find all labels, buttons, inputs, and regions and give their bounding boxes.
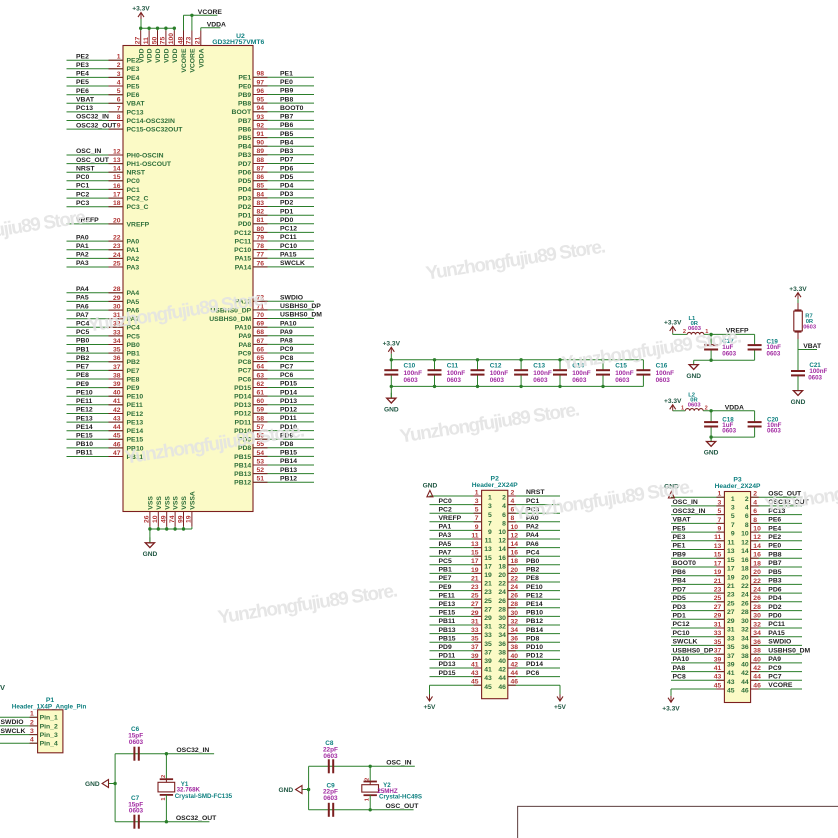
svg-text:PB2: PB2 bbox=[526, 567, 539, 574]
svg-text:PB12: PB12 bbox=[280, 476, 297, 483]
svg-text:PC11: PC11 bbox=[235, 238, 252, 245]
svg-text:+3.3V: +3.3V bbox=[789, 286, 807, 293]
svg-text:0603: 0603 bbox=[447, 377, 462, 384]
svg-text:PD2: PD2 bbox=[238, 204, 251, 211]
svg-text:PB5: PB5 bbox=[238, 135, 251, 142]
svg-text:43: 43 bbox=[727, 679, 735, 686]
svg-text:VBAT: VBAT bbox=[673, 517, 692, 524]
svg-text:100nF: 100nF bbox=[615, 370, 634, 377]
svg-text:PE12: PE12 bbox=[526, 592, 543, 599]
svg-text:11: 11 bbox=[471, 532, 478, 539]
svg-text:Yunzhongfujiu89 Store.: Yunzhongfujiu89 Store. bbox=[398, 400, 580, 448]
svg-text:44: 44 bbox=[741, 679, 749, 686]
svg-text:PB12: PB12 bbox=[526, 618, 543, 625]
svg-text:9: 9 bbox=[117, 123, 121, 130]
svg-text:91: 91 bbox=[257, 131, 265, 138]
svg-text:24: 24 bbox=[753, 587, 761, 594]
svg-text:15: 15 bbox=[471, 550, 479, 557]
svg-text:1: 1 bbox=[718, 491, 722, 498]
svg-text:SWCLK: SWCLK bbox=[673, 639, 698, 646]
svg-text:16: 16 bbox=[113, 183, 121, 190]
svg-text:VSS: VSS bbox=[164, 496, 171, 510]
svg-text:VREFP: VREFP bbox=[127, 221, 150, 228]
svg-text:33: 33 bbox=[714, 630, 722, 637]
svg-text:Header_2X24P: Header_2X24P bbox=[472, 482, 518, 489]
svg-text:PD5: PD5 bbox=[238, 178, 251, 185]
svg-text:40: 40 bbox=[753, 656, 761, 663]
svg-text:21: 21 bbox=[471, 575, 479, 582]
svg-text:USBHS0_DM: USBHS0_DM bbox=[768, 647, 810, 654]
svg-text:30: 30 bbox=[753, 613, 761, 620]
svg-text:C12: C12 bbox=[490, 363, 502, 370]
svg-text:100nF: 100nF bbox=[490, 370, 509, 377]
svg-text:7: 7 bbox=[731, 522, 735, 529]
svg-text:VSS: VSS bbox=[156, 496, 163, 510]
svg-text:PE2: PE2 bbox=[768, 534, 781, 541]
svg-text:43: 43 bbox=[714, 674, 722, 681]
svg-text:49: 49 bbox=[161, 515, 168, 523]
svg-text:PA1: PA1 bbox=[127, 247, 140, 254]
svg-text:17: 17 bbox=[714, 560, 722, 567]
svg-text:SWCLK: SWCLK bbox=[280, 260, 305, 267]
svg-text:PD10: PD10 bbox=[526, 644, 543, 651]
svg-text:VCORE: VCORE bbox=[190, 48, 197, 73]
svg-text:PB1: PB1 bbox=[76, 346, 89, 353]
svg-text:PB11: PB11 bbox=[76, 450, 93, 457]
svg-text:47: 47 bbox=[113, 450, 121, 457]
svg-text:PB7: PB7 bbox=[768, 560, 781, 567]
svg-text:PE1: PE1 bbox=[673, 543, 686, 550]
svg-text:PE7: PE7 bbox=[127, 368, 140, 375]
svg-text:42: 42 bbox=[498, 667, 506, 674]
svg-text:44: 44 bbox=[498, 675, 506, 682]
svg-text:0603: 0603 bbox=[323, 795, 338, 802]
svg-text:PD7: PD7 bbox=[673, 586, 686, 593]
svg-text:PC1: PC1 bbox=[76, 183, 89, 190]
svg-text:PB14: PB14 bbox=[280, 458, 297, 465]
svg-text:25: 25 bbox=[484, 598, 492, 605]
svg-text:8: 8 bbox=[502, 520, 506, 527]
svg-text:25: 25 bbox=[714, 595, 722, 602]
svg-text:25: 25 bbox=[471, 593, 479, 600]
svg-text:42: 42 bbox=[113, 407, 121, 414]
svg-text:SWDIO: SWDIO bbox=[1, 719, 24, 726]
svg-text:PD5: PD5 bbox=[280, 174, 293, 181]
svg-text:39: 39 bbox=[113, 381, 121, 388]
svg-text:0603: 0603 bbox=[129, 808, 144, 815]
svg-text:42: 42 bbox=[511, 661, 519, 668]
svg-text:70: 70 bbox=[257, 312, 265, 319]
svg-text:PD6: PD6 bbox=[280, 165, 293, 172]
svg-text:PA10: PA10 bbox=[280, 320, 297, 327]
svg-text:PA10: PA10 bbox=[673, 656, 690, 663]
svg-text:45: 45 bbox=[484, 684, 492, 691]
svg-text:OSC_IN: OSC_IN bbox=[386, 760, 411, 767]
svg-text:37: 37 bbox=[727, 653, 735, 660]
svg-text:PE4: PE4 bbox=[768, 525, 781, 532]
svg-text:13: 13 bbox=[727, 548, 735, 555]
svg-text:4: 4 bbox=[30, 737, 34, 744]
svg-text:PB15: PB15 bbox=[280, 450, 297, 457]
svg-text:PB10: PB10 bbox=[526, 610, 543, 617]
svg-text:PE9: PE9 bbox=[127, 385, 140, 392]
svg-text:+3.3V: +3.3V bbox=[383, 340, 401, 347]
svg-text:59: 59 bbox=[257, 407, 265, 414]
svg-text:2: 2 bbox=[30, 719, 34, 726]
svg-text:0603: 0603 bbox=[615, 377, 630, 384]
svg-text:VREFP: VREFP bbox=[439, 515, 462, 522]
svg-text:GND: GND bbox=[85, 781, 100, 788]
svg-text:67: 67 bbox=[257, 338, 265, 345]
svg-text:PE8: PE8 bbox=[76, 372, 89, 379]
svg-text:83: 83 bbox=[257, 200, 265, 207]
svg-text:PC8: PC8 bbox=[238, 359, 251, 366]
svg-text:PA14: PA14 bbox=[235, 264, 252, 271]
svg-text:PA4: PA4 bbox=[76, 286, 89, 293]
svg-text:20: 20 bbox=[753, 569, 761, 576]
svg-text:42: 42 bbox=[753, 665, 761, 672]
svg-text:3: 3 bbox=[731, 505, 735, 512]
svg-text:PD15: PD15 bbox=[280, 381, 297, 388]
svg-text:32: 32 bbox=[511, 618, 519, 625]
svg-text:Header_2X24P: Header_2X24P bbox=[715, 483, 761, 490]
svg-text:3: 3 bbox=[30, 728, 34, 735]
svg-text:11: 11 bbox=[143, 37, 150, 44]
svg-text:PE7: PE7 bbox=[439, 575, 452, 582]
svg-text:11: 11 bbox=[714, 534, 721, 541]
svg-text:2: 2 bbox=[511, 489, 515, 496]
svg-text:OSC32_IN: OSC32_IN bbox=[673, 508, 706, 515]
svg-text:PA2: PA2 bbox=[526, 524, 539, 531]
svg-text:PD11: PD11 bbox=[439, 653, 456, 660]
svg-text:27: 27 bbox=[135, 37, 142, 45]
svg-text:PC8: PC8 bbox=[280, 355, 293, 362]
svg-text:13: 13 bbox=[714, 543, 722, 550]
svg-text:PC7: PC7 bbox=[768, 674, 781, 681]
svg-text:15: 15 bbox=[484, 555, 492, 562]
svg-text:PB15: PB15 bbox=[234, 454, 251, 461]
svg-text:36: 36 bbox=[741, 644, 749, 651]
svg-text:0603: 0603 bbox=[722, 351, 736, 358]
svg-text:81: 81 bbox=[257, 217, 265, 224]
svg-text:PC9: PC9 bbox=[768, 665, 781, 672]
svg-text:22: 22 bbox=[511, 575, 519, 582]
svg-text:18: 18 bbox=[753, 560, 761, 567]
svg-text:PA8: PA8 bbox=[238, 342, 251, 349]
svg-text:PA5: PA5 bbox=[127, 299, 140, 306]
svg-text:PC1: PC1 bbox=[127, 187, 140, 194]
svg-text:5: 5 bbox=[117, 88, 121, 95]
svg-text:10: 10 bbox=[498, 529, 506, 536]
svg-text:74: 74 bbox=[169, 515, 176, 523]
svg-text:Yunzhongfujiu89 Store.: Yunzhongfujiu89 Store. bbox=[512, 477, 694, 525]
svg-text:PE4: PE4 bbox=[127, 75, 140, 82]
svg-text:C16: C16 bbox=[656, 363, 668, 370]
svg-text:PB15: PB15 bbox=[439, 635, 456, 642]
svg-text:1: 1 bbox=[161, 797, 167, 800]
svg-text:VBAT: VBAT bbox=[127, 101, 146, 108]
svg-text:+3.3V: +3.3V bbox=[664, 320, 682, 327]
svg-text:PD12: PD12 bbox=[526, 653, 543, 660]
svg-text:19: 19 bbox=[727, 574, 735, 581]
svg-text:PB12: PB12 bbox=[234, 480, 251, 487]
svg-text:+5V: +5V bbox=[424, 704, 437, 711]
svg-text:13: 13 bbox=[113, 157, 121, 164]
svg-text:45: 45 bbox=[714, 682, 722, 689]
svg-text:0603: 0603 bbox=[490, 377, 505, 384]
svg-text:VDD: VDD bbox=[138, 48, 145, 62]
svg-text:20: 20 bbox=[511, 567, 519, 574]
svg-text:1: 1 bbox=[731, 496, 735, 503]
svg-text:34: 34 bbox=[113, 338, 121, 345]
svg-text:54: 54 bbox=[257, 450, 265, 457]
svg-text:46: 46 bbox=[113, 441, 121, 448]
svg-text:PB4: PB4 bbox=[280, 139, 293, 146]
svg-text:15: 15 bbox=[113, 174, 121, 181]
svg-text:23: 23 bbox=[484, 589, 492, 596]
svg-text:39: 39 bbox=[471, 653, 479, 660]
svg-text:100nF: 100nF bbox=[404, 370, 423, 377]
svg-text:35: 35 bbox=[471, 636, 479, 643]
svg-text:53: 53 bbox=[257, 458, 265, 465]
svg-text:+3.3V: +3.3V bbox=[664, 398, 682, 405]
svg-text:PD6: PD6 bbox=[768, 586, 781, 593]
svg-text:PD3: PD3 bbox=[280, 191, 293, 198]
svg-text:16: 16 bbox=[753, 552, 761, 559]
svg-text:PA0: PA0 bbox=[76, 234, 89, 241]
svg-text:PE5: PE5 bbox=[76, 79, 89, 86]
svg-text:PC6: PC6 bbox=[280, 372, 293, 379]
svg-text:OSC32_IN: OSC32_IN bbox=[176, 747, 209, 754]
svg-text:NRST: NRST bbox=[127, 170, 146, 177]
svg-text:PC5: PC5 bbox=[439, 558, 452, 565]
svg-text:OSC_IN: OSC_IN bbox=[673, 499, 698, 506]
svg-text:PC5: PC5 bbox=[76, 329, 89, 336]
svg-text:PB7: PB7 bbox=[238, 118, 251, 125]
svg-text:45: 45 bbox=[113, 433, 121, 440]
svg-text:PC10: PC10 bbox=[673, 630, 690, 637]
svg-text:PC12: PC12 bbox=[234, 230, 251, 237]
svg-text:32: 32 bbox=[741, 627, 749, 634]
svg-text:OSC32_OUT: OSC32_OUT bbox=[176, 815, 217, 822]
svg-text:19: 19 bbox=[186, 515, 193, 523]
svg-text:Pin_4: Pin_4 bbox=[40, 741, 58, 748]
svg-text:PA1: PA1 bbox=[439, 524, 452, 531]
svg-text:17: 17 bbox=[727, 566, 735, 573]
svg-text:46: 46 bbox=[498, 684, 506, 691]
svg-text:PD14: PD14 bbox=[526, 661, 543, 668]
svg-text:PB3: PB3 bbox=[280, 148, 293, 155]
svg-text:20: 20 bbox=[741, 574, 749, 581]
svg-text:22: 22 bbox=[113, 235, 121, 242]
svg-text:25: 25 bbox=[727, 600, 735, 607]
svg-text:PC11: PC11 bbox=[280, 234, 297, 241]
svg-text:0603: 0603 bbox=[323, 753, 338, 760]
svg-text:PB6: PB6 bbox=[238, 126, 251, 133]
svg-text:PE10: PE10 bbox=[76, 389, 93, 396]
svg-text:PE0: PE0 bbox=[280, 79, 293, 86]
svg-text:10: 10 bbox=[152, 515, 159, 523]
svg-text:18: 18 bbox=[741, 566, 749, 573]
svg-text:8: 8 bbox=[745, 522, 749, 529]
svg-text:43: 43 bbox=[113, 416, 121, 423]
svg-text:21: 21 bbox=[727, 583, 735, 590]
svg-text:PC2_C: PC2_C bbox=[127, 196, 149, 203]
svg-text:9: 9 bbox=[488, 529, 492, 536]
svg-text:38: 38 bbox=[498, 649, 506, 656]
svg-text:PE12: PE12 bbox=[127, 411, 144, 418]
svg-text:PA8: PA8 bbox=[280, 338, 293, 345]
svg-text:43: 43 bbox=[471, 670, 479, 677]
svg-text:PD13: PD13 bbox=[234, 402, 251, 409]
svg-text:84: 84 bbox=[257, 191, 265, 198]
svg-text:PD12: PD12 bbox=[234, 411, 251, 418]
svg-text:6: 6 bbox=[745, 513, 749, 520]
svg-text:PE7: PE7 bbox=[76, 364, 89, 371]
svg-text:PB0: PB0 bbox=[76, 338, 89, 345]
svg-text:12: 12 bbox=[498, 538, 506, 545]
svg-text:PC3: PC3 bbox=[76, 200, 89, 207]
svg-text:7: 7 bbox=[117, 105, 121, 112]
svg-text:VSSA: VSSA bbox=[190, 491, 197, 510]
svg-text:7: 7 bbox=[718, 517, 722, 524]
svg-text:PE3: PE3 bbox=[76, 62, 89, 69]
svg-text:PE0: PE0 bbox=[768, 543, 781, 550]
svg-text:16: 16 bbox=[498, 555, 506, 562]
svg-text:14: 14 bbox=[511, 541, 519, 548]
svg-text:PA3: PA3 bbox=[127, 264, 140, 271]
svg-text:PD14: PD14 bbox=[234, 394, 251, 401]
svg-text:5: 5 bbox=[731, 513, 735, 520]
svg-text:PE6: PE6 bbox=[76, 88, 89, 95]
svg-text:41: 41 bbox=[484, 667, 492, 674]
svg-text:12: 12 bbox=[113, 148, 121, 155]
svg-text:31: 31 bbox=[727, 627, 735, 634]
svg-text:PA2: PA2 bbox=[127, 256, 140, 263]
svg-text:37: 37 bbox=[471, 644, 479, 651]
svg-text:PE14: PE14 bbox=[127, 428, 144, 435]
svg-text:34: 34 bbox=[498, 632, 506, 639]
svg-text:80: 80 bbox=[257, 226, 265, 233]
svg-text:58: 58 bbox=[257, 415, 265, 422]
svg-text:0603: 0603 bbox=[129, 739, 144, 746]
svg-text:6: 6 bbox=[502, 512, 506, 519]
svg-text:PD12: PD12 bbox=[280, 407, 297, 414]
svg-text:12: 12 bbox=[741, 539, 749, 546]
svg-text:PC0: PC0 bbox=[127, 178, 140, 185]
svg-text:PE6: PE6 bbox=[127, 92, 140, 99]
svg-text:10: 10 bbox=[511, 524, 519, 531]
svg-text:3: 3 bbox=[488, 503, 492, 510]
svg-text:13: 13 bbox=[471, 541, 479, 548]
svg-text:26: 26 bbox=[144, 515, 151, 523]
svg-text:46: 46 bbox=[511, 679, 519, 686]
svg-text:24: 24 bbox=[741, 592, 749, 599]
svg-text:3: 3 bbox=[718, 499, 722, 506]
svg-text:PB13: PB13 bbox=[439, 627, 456, 634]
svg-text:PB7: PB7 bbox=[280, 114, 293, 121]
svg-text:4: 4 bbox=[753, 499, 757, 506]
svg-text:24: 24 bbox=[498, 589, 506, 596]
svg-text:1: 1 bbox=[475, 489, 479, 496]
svg-text:PA0: PA0 bbox=[127, 239, 140, 246]
svg-text:40: 40 bbox=[741, 662, 749, 669]
svg-text:18: 18 bbox=[498, 563, 506, 570]
svg-text:20: 20 bbox=[113, 217, 121, 224]
svg-text:27: 27 bbox=[714, 604, 722, 611]
svg-text:19: 19 bbox=[714, 569, 722, 576]
svg-text:28: 28 bbox=[113, 286, 121, 293]
svg-text:PE11: PE11 bbox=[127, 402, 143, 409]
svg-text:39: 39 bbox=[727, 662, 735, 669]
svg-text:42: 42 bbox=[741, 670, 749, 677]
svg-text:SWDIO: SWDIO bbox=[768, 639, 791, 646]
svg-text:4: 4 bbox=[745, 505, 749, 512]
svg-text:BOOT0: BOOT0 bbox=[673, 560, 697, 567]
svg-text:36: 36 bbox=[113, 355, 121, 362]
svg-text:USBHS0_DP: USBHS0_DP bbox=[280, 303, 321, 310]
svg-text:PA5: PA5 bbox=[439, 541, 452, 548]
svg-text:PD14: PD14 bbox=[280, 389, 297, 396]
svg-text:VBAT: VBAT bbox=[803, 343, 822, 350]
svg-text:OSC_OUT: OSC_OUT bbox=[76, 157, 110, 164]
svg-text:PB4: PB4 bbox=[238, 144, 251, 151]
svg-text:29: 29 bbox=[727, 618, 735, 625]
svg-text:GND: GND bbox=[384, 406, 399, 413]
svg-text:PA3: PA3 bbox=[439, 532, 452, 539]
svg-text:45: 45 bbox=[727, 688, 735, 695]
svg-text:44: 44 bbox=[753, 674, 761, 681]
svg-text:0603: 0603 bbox=[722, 428, 736, 435]
svg-text:PD2: PD2 bbox=[768, 604, 781, 611]
svg-text:38: 38 bbox=[753, 648, 761, 655]
svg-text:PC2: PC2 bbox=[76, 191, 89, 198]
svg-text:4: 4 bbox=[117, 79, 121, 86]
svg-text:PC0: PC0 bbox=[76, 174, 89, 181]
svg-text:30: 30 bbox=[741, 618, 749, 625]
svg-text:26: 26 bbox=[511, 593, 519, 600]
svg-text:PB13: PB13 bbox=[234, 471, 251, 478]
svg-text:Yunzhongfujiu89 Store.: Yunzhongfujiu89 Store. bbox=[424, 237, 606, 285]
svg-text:8: 8 bbox=[753, 517, 757, 524]
svg-text:PB11: PB11 bbox=[439, 618, 456, 625]
svg-text:22: 22 bbox=[498, 581, 506, 588]
svg-text:30: 30 bbox=[511, 610, 519, 617]
svg-text:19: 19 bbox=[484, 572, 492, 579]
svg-text:VCORE: VCORE bbox=[768, 682, 793, 689]
svg-text:36: 36 bbox=[511, 636, 519, 643]
svg-text:21: 21 bbox=[195, 37, 202, 45]
svg-text:10: 10 bbox=[753, 526, 761, 533]
svg-text:PD1: PD1 bbox=[280, 208, 293, 215]
svg-text:PB5: PB5 bbox=[768, 569, 781, 576]
svg-text:PD15: PD15 bbox=[439, 670, 456, 677]
svg-text:34: 34 bbox=[511, 627, 519, 634]
svg-text:27: 27 bbox=[727, 609, 735, 616]
svg-text:23: 23 bbox=[714, 587, 722, 594]
svg-text:PB13: PB13 bbox=[280, 467, 297, 474]
svg-text:36: 36 bbox=[498, 641, 506, 648]
svg-text:PD4: PD4 bbox=[280, 183, 293, 190]
svg-text:95: 95 bbox=[257, 97, 265, 104]
svg-text:PB9: PB9 bbox=[280, 88, 293, 95]
svg-text:43: 43 bbox=[484, 675, 492, 682]
svg-text:PE13: PE13 bbox=[439, 601, 456, 608]
svg-text:88: 88 bbox=[257, 157, 265, 164]
svg-text:29: 29 bbox=[714, 613, 722, 620]
svg-text:PE9: PE9 bbox=[439, 584, 452, 591]
svg-text:PD11: PD11 bbox=[235, 419, 252, 426]
